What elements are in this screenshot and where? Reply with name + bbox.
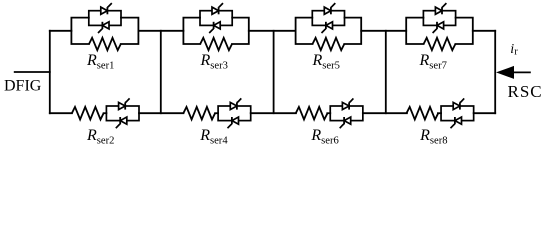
svg-text:Rser1: Rser1 (86, 52, 114, 71)
thyristor T7b (reverse) (433, 22, 444, 33)
svg-text:Rser3: Rser3 (200, 52, 228, 71)
current arrow i_r (head) (496, 66, 514, 79)
R_ser1 unit outer parallel loop (71, 18, 138, 44)
R_ser5 unit outer parallel loop (296, 18, 362, 44)
bus node 1-2 (160, 31, 162, 113)
resistor R_ser5 (313, 38, 345, 50)
svg-text:DFIG: DFIG (4, 78, 42, 95)
resistor R_ser4 (183, 107, 215, 120)
resistor R_ser6 (296, 107, 328, 120)
wire bottom rail segment 5 (251, 112, 296, 114)
wire top rail segment 1 (50, 30, 72, 32)
thyristor T5b (reverse) (322, 22, 333, 33)
thyristor T7a (forward) (435, 3, 446, 14)
current arrow i_r (tail) (512, 71, 531, 73)
thyristor T6a (forward) (342, 98, 353, 109)
thyristor T3a (forward) (212, 3, 223, 14)
bus node 2-3 (273, 31, 275, 113)
bus node 3-4 (385, 31, 387, 113)
right bus (494, 31, 496, 113)
resistor R_ser3 (200, 38, 232, 50)
wire top rail segment 4 (361, 30, 406, 32)
svg-text:Rser8: Rser8 (419, 127, 447, 146)
thyristor-pair box (unit 7) (423, 11, 455, 26)
thyristor T1a (forward) (101, 3, 112, 14)
wire bottom rail segment 3 (139, 112, 183, 114)
thyristor T8a (forward) (453, 98, 464, 109)
wire bottom rail segment 8 (438, 112, 441, 114)
R_ser3 unit outer parallel loop (183, 18, 248, 44)
resistor R_ser2 (72, 107, 104, 120)
thyristor-pair box (unit 5) (312, 11, 344, 26)
wire top rail segment 3 (249, 30, 296, 32)
wire top rail segment 5 (473, 30, 495, 32)
wire bottom rail segment 4 (215, 112, 218, 114)
resistor R_ser8 (407, 107, 439, 120)
left bus (49, 31, 51, 113)
thyristor-pair box (unit 6) (330, 106, 363, 121)
thyristor T3b (reverse) (209, 22, 220, 33)
resistor R_ser7 (424, 38, 456, 50)
resistor R_ser1 (89, 38, 121, 50)
thyristor-pair box (unit 4) (218, 106, 251, 121)
R_ser7 unit outer parallel loop (406, 18, 473, 44)
svg-text:Rser4: Rser4 (199, 127, 228, 146)
svg-text:RSC: RSC (508, 82, 543, 101)
svg-text:Rser6: Rser6 (310, 127, 338, 146)
svg-text:Rser2: Rser2 (86, 127, 114, 146)
svg-text:Rser5: Rser5 (312, 52, 340, 71)
thyristor-pair box (unit 2) (106, 106, 139, 121)
thyristor-pair box (unit 1) (89, 11, 121, 26)
thyristor T6b (reverse) (340, 117, 351, 128)
wire bottom rail segment 6 (327, 112, 330, 114)
thyristor T2b (reverse) (116, 117, 127, 128)
wire top rail segment 2 (138, 30, 183, 32)
wire bottom rail segment 9 (474, 112, 496, 114)
svg-text:ir: ir (510, 42, 518, 58)
wire DFIG to left bus (15, 71, 50, 73)
thyristor-pair box (unit 3) (200, 11, 232, 26)
thyristor T2a (forward) (119, 98, 130, 109)
thyristor T4b (reverse) (228, 117, 239, 128)
svg-text:Rser7: Rser7 (419, 52, 447, 71)
thyristor T4a (forward) (230, 98, 241, 109)
thyristor T1b (reverse) (98, 22, 109, 33)
thyristor T8b (reverse) (451, 117, 462, 128)
wire bottom rail segment 2 (104, 112, 107, 114)
wire bottom rail segment 1 (50, 112, 72, 114)
wire bottom rail segment 7 (363, 112, 407, 114)
thyristor T5a (forward) (324, 3, 335, 14)
thyristor-pair box (unit 8) (441, 106, 474, 121)
